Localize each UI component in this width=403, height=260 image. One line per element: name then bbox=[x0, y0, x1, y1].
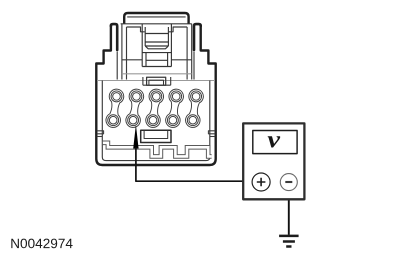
mid shelf line left bbox=[122, 59, 142, 61]
tab outer rect bbox=[147, 77, 166, 85]
terminal tray bbox=[141, 130, 171, 142]
lower body inner border bbox=[102, 81, 210, 161]
latch rung 3 bbox=[145, 45, 168, 47]
voltmeter V glyph bbox=[268, 136, 281, 147]
tab flank right bbox=[170, 77, 172, 85]
latch inner rail left bbox=[144, 27, 146, 46]
wing stub left bbox=[116, 52, 118, 80]
tab flank left bbox=[142, 77, 144, 85]
tab under line bbox=[143, 84, 171, 86]
arm top left bbox=[127, 27, 145, 32]
connector top cap bbox=[124, 13, 188, 24]
wire: pin to voltmeter positive bbox=[136, 148, 252, 182]
wing hook left bbox=[111, 24, 117, 50]
wall notch right bbox=[208, 131, 215, 137]
connector J1 outer shell bbox=[96, 13, 215, 165]
latch rail left bbox=[141, 24, 143, 67]
negative terminal bbox=[280, 174, 297, 191]
pin unit 4 bbox=[166, 89, 184, 127]
latch rung 6 bbox=[142, 66, 171, 68]
body top seam bbox=[97, 80, 215, 82]
ground symbol bbox=[279, 236, 299, 247]
wing stub right bbox=[193, 52, 195, 80]
pin unit 2 bbox=[126, 89, 144, 127]
terminal cavity channel (crenellated) bbox=[103, 143, 212, 157]
probe arrow bbox=[133, 125, 138, 149]
tab inner bbox=[149, 80, 164, 84]
latch inner rail right bbox=[167, 27, 169, 46]
positive terminal bbox=[252, 173, 270, 191]
latch bottom tab bbox=[143, 77, 171, 85]
cap inner edge bbox=[127, 16, 185, 18]
latch rung 5 bbox=[146, 59, 168, 61]
wing hook right bbox=[194, 24, 201, 50]
figure number label N0042974 bbox=[11, 239, 72, 249]
upper seam bbox=[122, 73, 192, 75]
wall notch left bbox=[97, 131, 104, 137]
arm top right bbox=[169, 27, 187, 32]
mid shelf line right bbox=[171, 59, 191, 61]
inner wall right bbox=[191, 24, 193, 80]
terminal pins (5 double-cavity units) bbox=[106, 89, 203, 127]
housing seam lines bbox=[97, 74, 215, 81]
cap bottom edge bbox=[121, 23, 192, 25]
latch rung 2 bbox=[145, 41, 168, 43]
latch ramp bbox=[145, 46, 168, 49]
pin unit 3 bbox=[146, 89, 164, 127]
voltmeter display window bbox=[253, 131, 297, 154]
latch rung 4 bbox=[142, 52, 171, 54]
latch pocket right bbox=[167, 53, 169, 67]
inner wall 2 left bbox=[126, 27, 128, 80]
connector center latch column bbox=[142, 24, 171, 67]
latch pocket left bbox=[145, 53, 147, 67]
latch rail right bbox=[170, 24, 172, 67]
latch rung 1 bbox=[145, 33, 168, 35]
wire: voltmeter negative to ground bbox=[288, 191, 290, 235]
connector upper housing inner walls bbox=[117, 24, 194, 80]
voltmeter U1 body bbox=[243, 123, 304, 199]
pin unit 5 bbox=[186, 89, 204, 127]
inner wall 2 right bbox=[186, 27, 188, 80]
inner wall left bbox=[121, 24, 123, 80]
pin unit 1 bbox=[106, 89, 124, 127]
connector stepped side profile and lower body outline bbox=[96, 25, 215, 165]
